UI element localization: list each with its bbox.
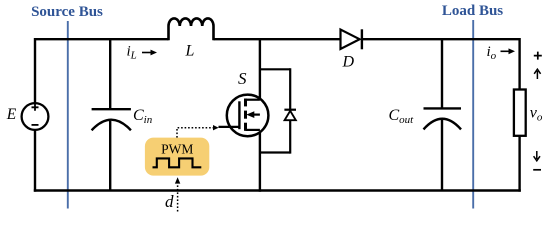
capacitor Cin top lead <box>109 39 111 109</box>
capacitor Cin top plate <box>92 108 131 110</box>
svg-text:S: S <box>238 69 247 88</box>
wire right upper lead <box>518 38 520 90</box>
svg-text:io: io <box>487 44 497 62</box>
wire top-right <box>362 38 520 40</box>
body diode cathode bar <box>284 109 296 111</box>
current arrow io <box>501 50 512 52</box>
svg-text:iL: iL <box>127 44 137 62</box>
svg-text:D: D <box>342 54 355 71</box>
inductor L <box>169 18 214 40</box>
body diode loop right <box>289 68 291 153</box>
PWM block <box>145 138 209 176</box>
capacitor Cin curved plate <box>92 120 131 131</box>
load bus line <box>472 20 474 209</box>
svg-text:PWM: PWM <box>161 141 193 156</box>
voltage source minus <box>32 124 39 126</box>
load resistor body <box>514 90 526 136</box>
mosfet source link <box>246 129 260 131</box>
wire bottom <box>34 189 521 191</box>
svg-text:vo: vo <box>530 105 543 124</box>
wire left upper <box>34 38 36 103</box>
svg-text:Cout: Cout <box>389 107 415 126</box>
label minus <box>533 169 541 171</box>
label plus <box>534 52 542 60</box>
body diode loop bottom <box>260 151 290 153</box>
voltage source plus <box>32 104 39 111</box>
control dotted line d to PWM <box>177 184 179 212</box>
wire top-left <box>35 38 169 40</box>
capacitor Cout top plate <box>424 107 462 109</box>
diode D triangle <box>341 30 360 50</box>
wire left lower <box>34 130 36 192</box>
svg-text:d: d <box>165 192 174 211</box>
svg-text:Cin: Cin <box>133 107 153 126</box>
current arrow iL <box>142 52 153 54</box>
PWM square wave <box>153 158 202 167</box>
mosfet channel bottom segment <box>244 123 247 131</box>
mosfet channel mid segment <box>244 111 247 119</box>
down arrow <box>534 151 540 161</box>
mosfet gate lead <box>219 126 240 128</box>
mosfet body arrow line <box>252 113 260 115</box>
svg-text:E: E <box>6 106 17 123</box>
body diode loop top <box>260 68 290 70</box>
body diode triangle <box>285 111 296 120</box>
control arrowhead to gate <box>213 125 219 130</box>
svg-text:Source Bus: Source Bus <box>31 4 103 20</box>
capacitor Cout top lead <box>441 39 443 108</box>
mosfet gate bar <box>238 101 240 129</box>
source bus line <box>67 21 69 209</box>
mosfet drain link <box>246 99 260 101</box>
mosfet drain/source vertical <box>259 38 261 192</box>
mosfet channel top segment <box>244 99 247 107</box>
capacitor Cout curved plate <box>424 119 462 130</box>
control arrowhead to PWM <box>175 177 180 183</box>
diode D cathode bar <box>361 29 363 49</box>
capacitor Cin bottom lead <box>109 121 111 191</box>
up arrow <box>534 69 540 79</box>
wire top-mid <box>214 38 341 40</box>
control dotted line PWM to gate <box>177 128 213 138</box>
capacitor Cout bottom lead <box>441 120 443 191</box>
svg-text:L: L <box>185 43 195 60</box>
svg-text:Load Bus: Load Bus <box>442 3 503 19</box>
mosfet body arrowhead <box>246 111 254 118</box>
mosfet S circle <box>227 95 269 137</box>
voltage source E circle <box>22 103 49 130</box>
wire right lower lead <box>518 136 520 192</box>
